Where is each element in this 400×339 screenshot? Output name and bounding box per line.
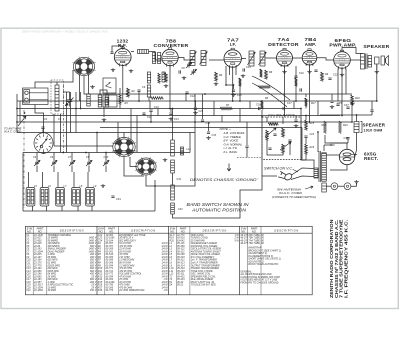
wire B+ top rail bbox=[320, 114, 357, 116]
svg-text:NO.: NO. bbox=[99, 229, 104, 233]
osc section coil L11 bbox=[171, 140, 175, 156]
resistor R15 bbox=[305, 120, 308, 130]
wire drop x139 bbox=[138, 92, 140, 101]
resistor R11 volume bbox=[266, 130, 269, 140]
wire T1 out bbox=[209, 59, 224, 61]
ground V1 right bbox=[129, 69, 134, 73]
svg-text:VOLUME & TONE: VOLUME & TONE bbox=[268, 113, 295, 117]
svg-text:IN A.C. CORD: IN A.C. CORD bbox=[4, 130, 21, 134]
wire coil L7 bottom bbox=[46, 206, 48, 211]
ground C24 bbox=[193, 111, 198, 115]
wire V6 screen bbox=[342, 48, 363, 54]
ground C13 bbox=[169, 117, 174, 121]
capacitor C5 bbox=[110, 52, 113, 53]
wire 6F6 lead a bbox=[337, 69, 339, 102]
capacitor C27 pwr bbox=[294, 120, 297, 121]
resistor R8 bbox=[261, 101, 264, 109]
osc section coil L13 bbox=[171, 185, 175, 200]
wire trimmer 1 lead bbox=[36, 153, 38, 161]
wire R8b up bbox=[295, 66, 297, 77]
wire bus stub 7 bbox=[239, 109, 241, 123]
svg-text:R15: R15 bbox=[310, 122, 315, 125]
resistor R8b bbox=[295, 78, 298, 86]
wire filter rail bbox=[325, 135, 348, 143]
table headers bbox=[26, 227, 298, 234]
resistor R12 tone bbox=[268, 123, 278, 126]
wire S2 to S3 link bbox=[54, 145, 113, 147]
wire vt3 bbox=[267, 140, 283, 155]
wire HV to rect bbox=[326, 154, 339, 156]
svg-text:NO.: NO. bbox=[27, 229, 32, 233]
oscillator coil L3b bbox=[147, 85, 150, 97]
svg-text:C15: C15 bbox=[237, 94, 242, 97]
wire V3 drop bbox=[232, 68, 234, 102]
speaker symbol bbox=[375, 56, 389, 66]
wire trimmer 4 lead bbox=[88, 153, 90, 161]
wire RF plate bbox=[149, 52, 162, 61]
svg-text:7 TUBE SUPERHETERODYNE: 7 TUBE SUPERHETERODYNE bbox=[339, 220, 344, 299]
resistor R4 bbox=[215, 72, 218, 81]
IF transformer T2 bbox=[248, 51, 267, 66]
capacitor C2 top bbox=[41, 127, 44, 128]
tube V7 6X5G rectifier bbox=[339, 149, 357, 164]
wire osc col bottom bbox=[173, 214, 196, 218]
svg-text:63-770: 63-770 bbox=[106, 289, 114, 292]
capacitor C24 det bbox=[194, 108, 197, 109]
wire C27 drop bbox=[295, 116, 297, 120]
capacitor C26 amp bbox=[314, 70, 317, 71]
ground C15 bbox=[231, 93, 236, 97]
wire coil L6 top bbox=[28, 172, 30, 188]
svg-text:R7: R7 bbox=[226, 103, 230, 107]
resistor R18 bleeder bbox=[324, 121, 327, 133]
wire R5 drop bbox=[239, 86, 241, 101]
capacitor C28 bbox=[300, 88, 301, 91]
wire bus stub 6 bbox=[249, 101, 251, 109]
resistor R17b bbox=[305, 98, 308, 106]
resistor R5 bbox=[239, 78, 242, 86]
band coil L8 bbox=[56, 188, 65, 207]
wire C39 dn bbox=[371, 112, 373, 115]
wire RF coil link bbox=[131, 51, 134, 53]
wire top right rail bbox=[203, 93, 352, 95]
resistor R9 bbox=[321, 72, 324, 81]
wire right col bbox=[301, 109, 306, 161]
svg-text:5 W: 5 W bbox=[235, 239, 240, 242]
wire S4 drop bbox=[146, 176, 155, 187]
wire R20b up bbox=[119, 88, 121, 94]
wire V2 drop bbox=[169, 66, 171, 109]
capacitor C23 bbox=[304, 136, 307, 137]
wire voice coil return bbox=[371, 101, 373, 110]
wire antenna top bbox=[35, 82, 57, 88]
svg-text:C23: C23 bbox=[310, 133, 315, 136]
resistor R1 bbox=[165, 73, 168, 82]
oscillator switch box 1 bbox=[103, 78, 116, 93]
volume and tone control box bbox=[262, 117, 301, 160]
wire C2 link bbox=[42, 129, 44, 133]
wire gang right bbox=[189, 133, 191, 153]
wire V3 out bbox=[241, 58, 246, 60]
svg-text:C32: C32 bbox=[178, 208, 183, 211]
antenna coil L2 bbox=[55, 85, 59, 111]
volume pot arrow bbox=[265, 128, 276, 137]
wire rect top bbox=[330, 143, 347, 149]
svg-text:CHASSIS Nº 7A02 3 BAND A.C.: CHASSIS Nº 7A02 3 BAND A.C. bbox=[334, 220, 339, 299]
oscillator coil L3c bbox=[162, 72, 165, 82]
wire R17 low bbox=[305, 106, 307, 109]
svg-text:C22: C22 bbox=[333, 74, 338, 77]
capacitor C10 bbox=[149, 110, 152, 111]
ground C37 bbox=[350, 102, 355, 106]
svg-text:I.F.: I.F. bbox=[230, 42, 237, 48]
svg-text:C30: C30 bbox=[104, 156, 109, 159]
trimmer top bus bbox=[23, 152, 190, 154]
svg-text:ROCKY BAND AUTOMATIC: ROCKY BAND AUTOMATIC bbox=[248, 263, 278, 266]
wire field top bbox=[356, 115, 358, 122]
osc section coil L14 bbox=[171, 203, 175, 214]
wire cord 1 bbox=[292, 168, 315, 175]
wire V5 drop bbox=[309, 65, 311, 122]
bus AVC line bbox=[17, 100, 377, 102]
svg-text:SWITCH ON V.C.: SWITCH ON V.C. bbox=[264, 167, 293, 171]
wire speaker drop bbox=[376, 65, 378, 101]
ground wavetrap bbox=[90, 85, 95, 89]
svg-text:R18: R18 bbox=[322, 124, 327, 127]
wire ant board bottom bbox=[35, 105, 44, 134]
wire xfmr feed 1 bbox=[317, 132, 319, 152]
resistor R19 bleeder bbox=[339, 121, 342, 133]
wire R20b dn bbox=[119, 104, 121, 109]
svg-text:40 MFD: 40 MFD bbox=[48, 289, 57, 292]
wire V4 to V5 bbox=[293, 57, 303, 59]
wire x262 low bbox=[261, 160, 263, 176]
wire rect bottom bbox=[330, 165, 347, 170]
wire coil L4 top bbox=[100, 90, 107, 95]
wire bus stub 4 bbox=[213, 101, 215, 116]
osc section coil L12 bbox=[171, 160, 175, 173]
svg-text:L14: L14 bbox=[187, 148, 192, 151]
wire trimmer 5 lead bbox=[105, 153, 107, 161]
trimmer capacitor C29 bbox=[103, 160, 109, 166]
wire C13 drop bbox=[170, 109, 172, 113]
svg-text:C31: C31 bbox=[116, 197, 121, 201]
wire x80 drop bbox=[80, 92, 82, 109]
wire V3 pin lead b bbox=[235, 67, 237, 75]
ground V1 left bbox=[111, 68, 116, 72]
wire S3 feed b bbox=[136, 116, 138, 153]
svg-text:IN A.C. CORD: IN A.C. CORD bbox=[279, 191, 303, 195]
gang link dash line A bbox=[62, 85, 64, 153]
ground speaker bbox=[375, 70, 380, 74]
table body rows bbox=[26, 234, 281, 292]
wire drop x151 bbox=[150, 112, 152, 122]
wire S1 lead a bbox=[79, 75, 81, 101]
wire band bus right bbox=[154, 180, 156, 211]
capacitor C39 vc bbox=[370, 110, 373, 111]
bus line 3 bbox=[17, 108, 301, 110]
wire cord 2 bbox=[291, 176, 314, 180]
svg-text:C38: C38 bbox=[344, 137, 349, 140]
wire osc col link bbox=[172, 173, 174, 185]
wire bus stub 2 bbox=[157, 109, 159, 116]
wire C34 drop bbox=[202, 94, 204, 119]
tube V3 7A7 I.F. bbox=[224, 48, 241, 69]
svg-text:C21: C21 bbox=[26, 289, 31, 292]
svg-text:22-1066: 22-1066 bbox=[33, 289, 43, 292]
svg-text:C18: C18 bbox=[256, 104, 261, 107]
svg-text:C17: C17 bbox=[287, 102, 292, 105]
diode load curve 1 bbox=[252, 76, 290, 100]
capacitor C11 osc bbox=[142, 113, 145, 114]
ground V4 bbox=[282, 70, 287, 74]
band switch wafer S2 pointed dial bbox=[34, 133, 53, 154]
wire det drop bbox=[261, 110, 263, 117]
band switch wafer S1 bbox=[72, 57, 95, 77]
capacitor C34 af bbox=[201, 120, 204, 121]
ground C33 bbox=[206, 136, 211, 140]
svg-text:1910 OHM: 1910 OHM bbox=[364, 128, 383, 132]
capacitor C8 bbox=[179, 70, 180, 73]
svg-text:C35: C35 bbox=[337, 102, 342, 105]
svg-text:NO.: NO. bbox=[252, 229, 257, 233]
svg-text:22 OHM WIREWOUND: 22 OHM WIREWOUND bbox=[118, 289, 144, 292]
wire V5 to V6 bbox=[317, 58, 334, 60]
wire C24 drop bbox=[195, 101, 197, 107]
svg-text:C14: C14 bbox=[246, 66, 251, 69]
capacitor C16 bbox=[294, 76, 297, 77]
capacitor C20 bbox=[288, 140, 291, 141]
capacitor C38 filter bbox=[346, 138, 349, 139]
wire xfmr feed 2 bbox=[323, 145, 325, 151]
wire C38 gnd bbox=[347, 139, 349, 143]
wire vt4 bbox=[289, 142, 291, 155]
svg-text:AUTOMATIC POSITION: AUTOMATIC POSITION bbox=[191, 208, 247, 213]
resistor R6b det bbox=[260, 69, 263, 77]
wire L2 lead a bbox=[53, 114, 55, 146]
svg-text:85-22: 85-22 bbox=[177, 284, 184, 287]
capacitor C22 bbox=[328, 78, 331, 79]
svg-text:ZENITH RADIO CORPORATION: ZENITH RADIO CORPORATION bbox=[329, 219, 334, 298]
wire C35 drop bbox=[331, 94, 333, 100]
wire T2 out bbox=[266, 57, 277, 59]
wire trimmer 2 bottom bbox=[53, 166, 55, 172]
ground T1 bbox=[214, 82, 219, 86]
resistor R20b bbox=[119, 94, 121, 104]
filament winding bbox=[322, 183, 327, 192]
wire V3 screen drop bbox=[226, 66, 234, 85]
wire S4 link bbox=[130, 157, 137, 167]
ground coils bbox=[101, 184, 106, 188]
band coil L7 bbox=[40, 188, 49, 207]
bus line 4 bbox=[17, 115, 340, 117]
wire S1 lead b bbox=[88, 75, 90, 94]
ground C27 bbox=[294, 124, 299, 128]
svg-text:C34: C34 bbox=[206, 122, 211, 125]
scattered reference designator labels bbox=[33, 66, 360, 211]
capacitor C31 bbox=[111, 196, 114, 197]
padder coil L15 bbox=[181, 147, 184, 155]
ground V6 bbox=[340, 73, 345, 77]
wire coil L10 bottom bbox=[91, 206, 93, 211]
wire conv grid bbox=[178, 58, 195, 61]
svg-text:C31: C31 bbox=[177, 178, 182, 181]
wavetrap coil small bbox=[87, 94, 90, 106]
wire output sec bbox=[376, 64, 378, 70]
capacitor C9 bbox=[137, 90, 140, 91]
svg-text:SPEAKER: SPEAKER bbox=[363, 44, 389, 50]
ground C35 bbox=[330, 105, 335, 109]
wire coil L8 bottom bbox=[61, 206, 63, 211]
bus B+ line bbox=[88, 93, 203, 95]
pilot lamp P2 bbox=[344, 183, 351, 190]
capacitor C21 bbox=[268, 148, 271, 149]
resistor R16 bbox=[305, 144, 308, 154]
capacitor C35b bbox=[330, 101, 333, 102]
wire L2 lead b bbox=[60, 114, 62, 153]
tube V1 1232 R.F. bbox=[114, 47, 131, 67]
field coil bracket bbox=[361, 122, 363, 133]
wire B+ ext bbox=[357, 114, 373, 116]
wire coil L9 top bbox=[73, 172, 75, 188]
capacitor C25 det bbox=[245, 146, 248, 147]
trimmer capacitor C27 bbox=[69, 160, 75, 166]
svg-text:DESCRIPTION: DESCRIPTION bbox=[274, 228, 298, 232]
tube V6 6F6G power amp bbox=[334, 50, 351, 70]
svg-text:1 W: 1 W bbox=[163, 289, 168, 292]
resistor R7 bbox=[220, 107, 232, 110]
trimmer capacitor C28 bbox=[86, 160, 92, 166]
wire trimmer 5 bottom bbox=[105, 166, 107, 172]
wire C33 drop bbox=[208, 122, 210, 131]
switch on v.c. pointer bbox=[293, 170, 298, 173]
wire V1 cathode drop bbox=[122, 66, 124, 102]
svg-text:C36: C36 bbox=[330, 144, 335, 147]
svg-text:46-175 7B4 TUBE .90: 46-175 7B4 TUBE .90 bbox=[240, 242, 264, 245]
speaker field coil L16 bbox=[354, 122, 359, 133]
wire left edge bus bbox=[16, 94, 18, 133]
svg-text:R16: R16 bbox=[310, 146, 315, 149]
svg-text:DESCRIPTION: DESCRIPTION bbox=[131, 228, 155, 232]
capacitor C12 pad bbox=[185, 92, 188, 93]
wire trimmer 4 bottom bbox=[88, 166, 90, 172]
wire lamp link bbox=[338, 185, 344, 187]
wire det col bbox=[246, 122, 248, 145]
padder trimmer C7 bbox=[191, 69, 197, 75]
oscillator coil L5 bbox=[105, 95, 109, 107]
svg-text:CONVERTER: CONVERTER bbox=[154, 43, 189, 49]
converter grid coil pair bbox=[153, 53, 161, 64]
wire x302 drop bbox=[301, 128, 303, 151]
resistor R7b det bbox=[258, 86, 270, 89]
IF transformer T1 bbox=[189, 51, 208, 66]
wire tone col3 bbox=[305, 154, 307, 160]
tube V2 7B8 converter bbox=[162, 48, 178, 68]
wire lower long 1 bbox=[195, 176, 277, 218]
svg-text:FROM PIN TO CHASSIS GROUND: FROM PIN TO CHASSIS GROUND bbox=[240, 281, 278, 284]
ground V5 bbox=[307, 70, 312, 74]
wire S3 feed c bbox=[117, 122, 119, 140]
tube V4 7A4 detector bbox=[277, 48, 293, 67]
svg-text:C12: C12 bbox=[190, 95, 195, 98]
AC plug bbox=[278, 171, 293, 181]
wire S3 top bbox=[123, 133, 125, 138]
svg-text:R10: R10 bbox=[355, 97, 360, 100]
svg-text:R18: R18 bbox=[98, 289, 103, 292]
wire tone col2 bbox=[305, 138, 307, 144]
svg-text:DESCRIPTION: DESCRIPTION bbox=[203, 228, 227, 232]
svg-text:R17: R17 bbox=[311, 102, 316, 105]
wire pwr left bbox=[302, 150, 314, 168]
ground V3 bbox=[241, 74, 246, 78]
svg-text:C10: C10 bbox=[154, 106, 159, 109]
wire ant col d bbox=[70, 92, 72, 133]
wire S3 feed a bbox=[130, 109, 132, 141]
parts table outer box bbox=[25, 226, 312, 294]
wire coil L9 bottom bbox=[77, 206, 79, 211]
band coil L9 bbox=[72, 188, 81, 207]
svg-text:ZENITH RADIO CORPORATION — MOD: ZENITH RADIO CORPORATION — MODELS 7D126-… bbox=[22, 30, 108, 33]
wire coil L7 top bbox=[42, 172, 44, 188]
gang link dash line B bbox=[23, 110, 25, 208]
tuning capacitor C1 variable bbox=[66, 97, 74, 107]
wire osc column bbox=[172, 109, 174, 141]
RF plate coil L3 bbox=[138, 50, 149, 54]
oscillator coil L4 bbox=[98, 95, 102, 107]
band switch wafer S4 bbox=[135, 157, 157, 176]
resistor R2b bbox=[158, 73, 160, 83]
ground lamps bbox=[354, 180, 359, 184]
wire L3 down bbox=[148, 97, 150, 101]
wire field bottom bbox=[355, 133, 357, 158]
wire box2 down bbox=[103, 107, 105, 117]
wire V6 plate bbox=[350, 59, 360, 61]
wire bus stub 5 bbox=[221, 116, 223, 123]
wire S2 to trimmers bbox=[43, 152, 45, 154]
wire antenna to switch bbox=[57, 70, 73, 82]
ground osc column bbox=[163, 158, 168, 162]
wire tuning cap top bbox=[63, 92, 69, 97]
resistor R2 bbox=[127, 88, 130, 97]
wire x352 rail bbox=[351, 105, 353, 122]
tone shield dashed stub bbox=[237, 157, 262, 159]
capacitor C37 filter bbox=[346, 107, 349, 108]
band switch wafer S3 bbox=[112, 137, 137, 158]
wire R8b dn bbox=[295, 86, 297, 101]
tube V5 7B4 amp bbox=[302, 49, 317, 67]
antenna terminal board bbox=[23, 88, 49, 105]
wire C25 dn bbox=[246, 148, 248, 158]
wire bus stub 9 bbox=[317, 101, 319, 116]
trimmer capacitor C25 bbox=[34, 160, 40, 166]
wire bus stub 8 bbox=[293, 101, 295, 109]
diode load curve 2 bbox=[252, 83, 287, 107]
bus line 6 bbox=[100, 127, 302, 129]
wire gang feed bbox=[96, 133, 98, 153]
svg-text:DETECTOR: DETECTOR bbox=[268, 42, 299, 48]
wire lamp gnd bbox=[351, 184, 357, 187]
ground V2 bbox=[164, 84, 169, 88]
wire V3 pin lead a bbox=[229, 67, 231, 75]
svg-text:NO.: NO. bbox=[38, 229, 43, 233]
svg-text:C33: C33 bbox=[212, 134, 217, 137]
svg-text:R19: R19 bbox=[343, 124, 348, 127]
svg-text:DENOTES CHASSIS ‘GROUND’: DENOTES CHASSIS ‘GROUND’ bbox=[190, 178, 258, 182]
capacitor C15 bbox=[232, 90, 235, 91]
wire C15 drop bbox=[233, 85, 235, 89]
resistor R10 bbox=[351, 95, 354, 105]
ground V2b bbox=[182, 76, 187, 80]
